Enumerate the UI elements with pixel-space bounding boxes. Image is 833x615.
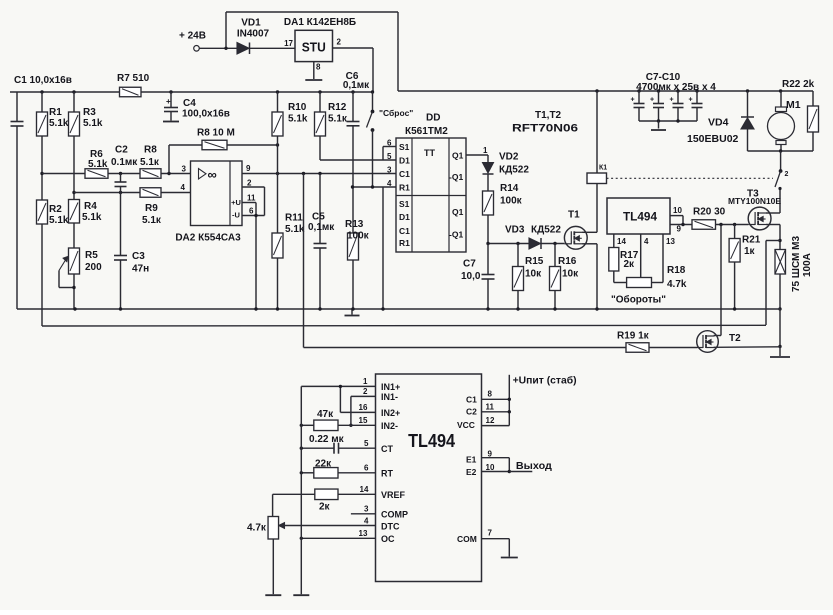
svg-text:C1 10,0x16в: C1 10,0x16в [14, 75, 72, 86]
svg-text:R9: R9 [145, 203, 158, 214]
svg-text:4: 4 [364, 516, 369, 525]
svg-text:3: 3 [387, 166, 392, 175]
svg-text:13: 13 [359, 529, 368, 538]
svg-text:5.1k: 5.1k [49, 118, 69, 129]
svg-text:Выход: Выход [516, 460, 552, 472]
svg-text:OC: OC [381, 534, 395, 544]
svg-text:R14: R14 [500, 183, 519, 194]
svg-text:5.1k: 5.1k [83, 118, 103, 129]
svg-text:VD3: VD3 [505, 225, 525, 236]
svg-text:RFT70N06: RFT70N06 [512, 123, 578, 135]
svg-text:10,0: 10,0 [461, 271, 481, 282]
svg-text:0,1мк: 0,1мк [308, 222, 335, 233]
svg-text:14: 14 [617, 237, 626, 246]
svg-text:150EBU02: 150EBU02 [687, 133, 739, 145]
svg-text:47к: 47к [317, 409, 334, 420]
svg-text:2: 2 [337, 38, 342, 47]
svg-text:4: 4 [181, 183, 186, 192]
svg-text:-U: -U [232, 211, 240, 220]
svg-text:200: 200 [85, 262, 102, 273]
svg-text:5.1к: 5.1к [142, 215, 162, 226]
svg-text:R4: R4 [84, 201, 97, 212]
svg-text:RT: RT [381, 469, 393, 479]
svg-text:6: 6 [387, 139, 392, 148]
svg-text:T1: T1 [568, 210, 580, 221]
svg-text:R10: R10 [288, 102, 307, 113]
svg-text:C7: C7 [463, 259, 476, 270]
svg-text:D1: D1 [399, 212, 410, 222]
svg-text:DA2 К554СА3: DA2 К554СА3 [175, 233, 241, 244]
svg-text:4.7k: 4.7k [667, 279, 687, 290]
svg-text:R11: R11 [285, 213, 303, 224]
svg-text:E1: E1 [466, 455, 477, 465]
svg-text:T1,T2: T1,T2 [535, 110, 562, 121]
svg-text:3: 3 [182, 165, 187, 174]
svg-text:E2: E2 [466, 467, 477, 477]
svg-text:R8 10 M: R8 10 M [197, 128, 235, 139]
svg-text:5: 5 [387, 152, 392, 161]
svg-text:MTY100N10Е: MTY100N10Е [728, 197, 782, 206]
svg-text:100к: 100к [500, 196, 523, 207]
svg-text:IN4007: IN4007 [237, 29, 270, 40]
svg-text:+ 24В: + 24В [179, 31, 206, 42]
svg-text:К561ТМ2: К561ТМ2 [405, 126, 448, 137]
svg-text:DA1 К142ЕН8Б: DA1 К142ЕН8Б [284, 17, 356, 28]
svg-text:R21: R21 [742, 235, 761, 246]
svg-text:+: + [689, 97, 693, 104]
svg-text:4: 4 [644, 237, 649, 246]
svg-text:3: 3 [364, 505, 369, 514]
svg-text:9: 9 [677, 225, 682, 234]
svg-text:C1: C1 [399, 169, 410, 179]
svg-text:R13: R13 [345, 219, 364, 230]
svg-text:C2: C2 [466, 407, 477, 417]
svg-text:R5: R5 [85, 250, 98, 261]
svg-text:∞: ∞ [208, 167, 217, 182]
svg-text:Q1: Q1 [452, 151, 464, 161]
svg-text:5.1к: 5.1к [140, 157, 160, 168]
svg-text:C1: C1 [466, 395, 477, 405]
svg-text:0.22 мк: 0.22 мк [309, 434, 345, 445]
svg-text:R3: R3 [83, 107, 96, 118]
svg-text:"Сброс": "Сброс" [379, 108, 413, 118]
svg-text:10к: 10к [525, 269, 542, 280]
svg-text:5.1к: 5.1к [328, 114, 348, 125]
svg-text:11: 11 [486, 403, 495, 412]
svg-text:2: 2 [785, 171, 789, 178]
svg-text:R15: R15 [525, 256, 544, 267]
svg-text:100,0x16в: 100,0x16в [182, 109, 230, 120]
svg-text:D1: D1 [399, 156, 410, 166]
svg-text:75 ШСМ М3: 75 ШСМ М3 [791, 236, 802, 292]
svg-text:1: 1 [483, 146, 488, 155]
svg-text:0,1мк: 0,1мк [343, 80, 370, 91]
svg-text:+: + [670, 97, 674, 104]
svg-text:TL494: TL494 [623, 212, 658, 224]
svg-text:100к: 100к [347, 231, 370, 242]
svg-text:15: 15 [359, 416, 368, 425]
svg-text:+: + [650, 97, 654, 104]
svg-text:9: 9 [246, 164, 251, 173]
svg-text:T2: T2 [729, 333, 741, 344]
svg-text:DTC: DTC [381, 521, 400, 531]
svg-text:1к: 1к [744, 246, 756, 257]
svg-text:C1: C1 [399, 226, 410, 236]
svg-text:5.1k: 5.1k [285, 224, 305, 235]
svg-text:R7 510: R7 510 [117, 73, 150, 84]
svg-text:4700мк x 25в x 4: 4700мк x 25в x 4 [636, 82, 716, 93]
svg-text:TL494: TL494 [408, 430, 456, 451]
svg-text:К1: К1 [599, 165, 607, 172]
svg-text:12: 12 [486, 416, 495, 425]
svg-text:VD1: VD1 [241, 18, 261, 29]
svg-text:IN2-: IN2- [381, 421, 398, 431]
svg-text:R19 1к: R19 1к [617, 331, 650, 342]
svg-text:COM: COM [457, 534, 477, 544]
svg-text:TT: TT [424, 148, 435, 158]
svg-text:17: 17 [284, 39, 293, 48]
svg-text:M1: M1 [786, 99, 801, 111]
svg-text:C2: C2 [115, 145, 128, 156]
svg-text:R22 2k: R22 2k [782, 79, 815, 90]
svg-text:R1: R1 [399, 238, 410, 248]
svg-text:IN1-: IN1- [381, 392, 398, 402]
svg-text:R1: R1 [49, 107, 62, 118]
svg-text:4.7к: 4.7к [247, 523, 267, 534]
svg-text:Q1: Q1 [452, 207, 464, 217]
svg-text:VCC: VCC [457, 420, 475, 430]
svg-text:C3: C3 [132, 251, 145, 262]
svg-text:+U: +U [231, 198, 241, 207]
svg-text:STU: STU [302, 40, 326, 54]
svg-text:R2: R2 [49, 204, 62, 215]
svg-text:+: + [631, 97, 635, 104]
svg-text:КД522: КД522 [531, 225, 561, 236]
svg-text:VD2: VD2 [499, 152, 519, 163]
svg-text:+Uпит (стаб): +Uпит (стаб) [513, 375, 577, 387]
svg-text:R8: R8 [144, 145, 157, 156]
svg-text:7: 7 [488, 529, 493, 538]
svg-text:8: 8 [316, 63, 321, 72]
svg-text:100А: 100А [802, 253, 813, 277]
svg-text:2: 2 [247, 179, 252, 188]
svg-text:"Обороты": "Обороты" [611, 294, 666, 306]
svg-text:CT: CT [381, 444, 393, 454]
svg-text:DD: DD [426, 113, 440, 124]
svg-text:16: 16 [359, 403, 368, 412]
svg-text:4: 4 [387, 179, 392, 188]
svg-text:-Q1: -Q1 [449, 230, 463, 240]
svg-text:2к: 2к [624, 259, 636, 270]
svg-text:10: 10 [673, 206, 682, 215]
svg-text:C5: C5 [312, 212, 325, 223]
svg-text:+: + [166, 97, 171, 106]
svg-text:5: 5 [364, 439, 369, 448]
svg-text:10: 10 [486, 463, 495, 472]
svg-text:5.1k: 5.1k [288, 114, 308, 125]
svg-text:C4: C4 [183, 98, 196, 109]
svg-text:5.1k: 5.1k [49, 215, 69, 226]
svg-text:2к: 2к [319, 502, 331, 513]
svg-text:5.1k: 5.1k [88, 159, 108, 170]
svg-text:VD4: VD4 [708, 117, 729, 129]
svg-text:S1: S1 [399, 199, 410, 209]
svg-text:8: 8 [488, 390, 493, 399]
svg-text:-Q1: -Q1 [449, 172, 463, 182]
svg-text:47н: 47н [132, 264, 149, 275]
svg-text:0.1мк: 0.1мк [111, 157, 138, 168]
svg-text:2: 2 [363, 387, 368, 396]
svg-text:R12: R12 [328, 102, 347, 113]
svg-text:14: 14 [360, 485, 369, 494]
svg-text:COMP: COMP [381, 510, 408, 520]
svg-text:S1: S1 [399, 142, 410, 152]
svg-text:10к: 10к [562, 269, 579, 280]
svg-text:IN1+: IN1+ [381, 382, 400, 392]
svg-text:6: 6 [364, 464, 369, 473]
svg-text:R18: R18 [667, 265, 686, 276]
svg-text:IN2+: IN2+ [381, 408, 400, 418]
svg-text:11: 11 [247, 194, 256, 203]
svg-text:R1: R1 [399, 183, 410, 193]
svg-text:R16: R16 [558, 256, 577, 267]
svg-text:R20 30: R20 30 [693, 207, 726, 218]
svg-text:КД522: КД522 [499, 165, 529, 176]
svg-text:22к: 22к [315, 459, 332, 470]
svg-text:5.1k: 5.1k [82, 212, 102, 223]
svg-text:13: 13 [666, 237, 675, 246]
svg-text:6: 6 [249, 207, 254, 216]
svg-text:1: 1 [363, 377, 368, 386]
svg-text:VREF: VREF [381, 490, 406, 500]
